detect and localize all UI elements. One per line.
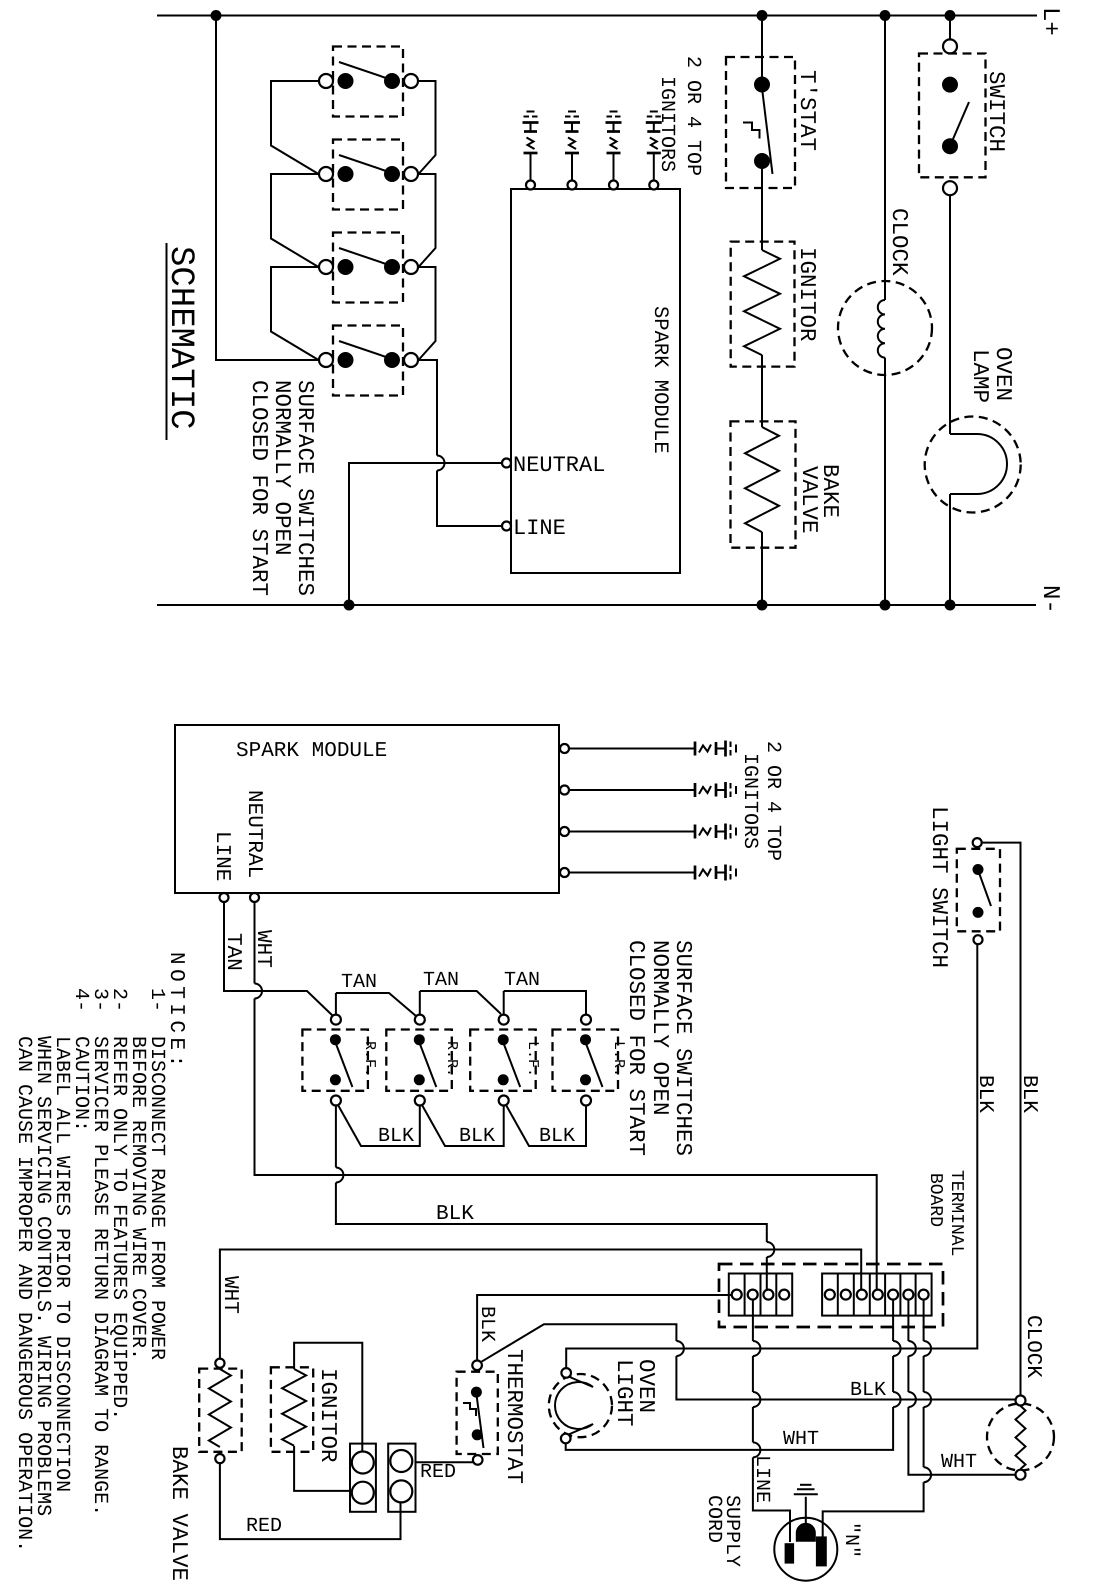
TAN bus linking surface switch tops xyxy=(336,993,416,1016)
junction: bake valve on N- xyxy=(757,600,768,611)
svg-text:2 OR 4 TOP: 2 OR 4 TOP xyxy=(761,741,784,861)
wire: thermostat BLK to terminal L1 xyxy=(477,1295,732,1361)
node N- rail xyxy=(157,604,1036,606)
svg-text:BLK: BLK xyxy=(475,1306,498,1342)
svg-text:TAN: TAN xyxy=(341,971,377,994)
light switch (oven light) xyxy=(926,806,1000,968)
wire: right bus link S1-S2 (top) xyxy=(419,81,436,174)
svg-text:BLK: BLK xyxy=(850,1379,886,1402)
svg-text:IGNITOR: IGNITOR xyxy=(794,247,820,342)
junction: switch tap on L+ xyxy=(945,10,956,21)
terminal board dashed outline xyxy=(719,1264,943,1327)
svg-text:BLK: BLK xyxy=(459,1125,495,1148)
oven lamp (top) xyxy=(925,347,1021,513)
label 2 OR 4 TOP IGNITORS (top) xyxy=(655,56,704,176)
svg-text:LINE: LINE xyxy=(750,1455,773,1503)
junction: clock tap on L+ xyxy=(880,10,891,21)
svg-text:N-: N- xyxy=(1036,585,1063,614)
wire ignitor to bake valve xyxy=(761,355,763,427)
svg-text:LIGHT SWITCH: LIGHT SWITCH xyxy=(926,806,952,968)
connector block 2 xyxy=(388,1444,415,1512)
svg-text:LIGHT: LIGHT xyxy=(611,1359,637,1427)
junction: oven lamp on N- xyxy=(945,600,956,611)
surface switch S1 (top schematic) xyxy=(319,47,418,117)
wire: right bus link S2-S3 (top) xyxy=(419,174,436,267)
svg-text:LINE: LINE xyxy=(513,516,566,541)
labels surface switches (top) xyxy=(246,380,318,596)
surface switch S3 (top schematic) xyxy=(319,233,418,303)
svg-text:SWITCH: SWITCH xyxy=(983,71,1009,152)
wire RED: thermostat to connector xyxy=(416,1461,474,1463)
connector block 1 xyxy=(350,1444,376,1512)
svg-text:L.F.: L.F. xyxy=(524,1041,541,1077)
wire: terminal R5 to oven light WHT (hops 2 lines) xyxy=(892,1300,894,1341)
svg-text:BLK: BLK xyxy=(436,1203,474,1226)
svg-text:IGNITORS: IGNITORS xyxy=(655,76,678,172)
oven lamp switch (top) xyxy=(919,16,1009,196)
svg-text:SCHEMATIC: SCHEMATIC xyxy=(161,246,199,430)
ignitor spark gap 3 (top schematic) xyxy=(606,112,622,190)
wire: right bus link S3-S4 (top) xyxy=(419,267,436,360)
svg-text:NEUTRAL: NEUTRAL xyxy=(513,453,605,478)
svg-text:VALVE: VALVE xyxy=(796,466,822,534)
wire hop over NEUTRAL line xyxy=(437,456,445,471)
svg-text:R.R.: R.R. xyxy=(443,1041,460,1077)
label 2 OR 4 TOP IGNITORS (wiring) xyxy=(738,741,784,861)
wire: oven light top to light switch bottom xyxy=(566,944,977,1368)
wire switch to oven lamp xyxy=(949,195,951,434)
svg-text:CLOSED FOR START: CLOSED FOR START xyxy=(623,940,649,1156)
junction: T'STAT tap on L+ xyxy=(757,10,768,21)
wire: L+ feed to surface switches xyxy=(216,16,319,361)
svg-text:BLK: BLK xyxy=(1017,1075,1040,1113)
wire oven lamp to N- xyxy=(949,494,951,605)
surface switch R.F. (wiring diagram) xyxy=(302,1015,378,1106)
ignitor spark gap 1 (top schematic) xyxy=(523,112,539,190)
ignitor spark gap 2 (top schematic) xyxy=(564,112,580,190)
surface switch R.R. (wiring diagram) xyxy=(386,1015,460,1106)
svg-text:SPARK MODULE: SPARK MODULE xyxy=(236,740,387,763)
wire BLK bus: switch R.F. to terminal L3 (hops WHT and WHT2) xyxy=(335,1106,337,1168)
junction: clock on N- xyxy=(880,600,891,611)
wire WHT: spark module NEUTRAL down to terminal R4 (hops TAN) xyxy=(254,902,256,984)
svg-text:WHT: WHT xyxy=(941,1451,977,1474)
svg-text:WHT: WHT xyxy=(251,930,274,968)
wire WHT2: bake valve to terminal R3 xyxy=(220,1250,861,1359)
labels surface switches (wiring) xyxy=(623,940,696,1156)
surface switch L.R. (wiring diagram) xyxy=(553,1015,628,1106)
svg-text:RED: RED xyxy=(420,1461,456,1484)
wire: terminal R6 to clock bottom xyxy=(907,1300,909,1341)
svg-text:L+: L+ xyxy=(1036,7,1063,36)
surface switch S4 (top schematic) xyxy=(319,326,418,396)
wire BLK: thermostat top to clock top (hops oven light wire) xyxy=(482,1324,677,1361)
wire N: terminal R7 to supply cord neutral (hops 3 lines) xyxy=(923,1300,925,1341)
svg-text:TAN: TAN xyxy=(423,969,459,992)
svg-text:LAMP: LAMP xyxy=(967,349,993,403)
wire: ignitor top to connector xyxy=(294,1343,362,1452)
svg-text:TERMINAL: TERMINAL xyxy=(946,1170,966,1256)
pin LINE (top spark module) xyxy=(502,522,511,531)
terminal block left group xyxy=(729,1274,792,1316)
clock motor coil (top) xyxy=(838,16,932,606)
svg-text:IGNITOR: IGNITOR xyxy=(315,1368,341,1463)
svg-text:LINE: LINE xyxy=(210,831,233,881)
ignitor spark gap 2 (wiring diagram) xyxy=(560,782,736,798)
svg-text:"N": "N" xyxy=(839,1522,862,1558)
pin LINE (bottom spark module) xyxy=(220,893,229,902)
svg-text:R.F.: R.F. xyxy=(361,1041,378,1077)
junction: surface switches tap on L+ xyxy=(211,10,222,21)
bake valve (wiring diagram) xyxy=(166,1359,242,1581)
wire bake valve to N- xyxy=(761,532,763,605)
wire: left bus link S3-S4 (top) xyxy=(271,267,319,360)
oven ignitor (wiring diagram) xyxy=(271,1367,341,1462)
pin NEUTRAL (top spark module) xyxy=(502,459,511,468)
svg-text:CLOSED FOR START: CLOSED FOR START xyxy=(246,380,272,596)
wire BLK: light switch top down to clock top xyxy=(982,843,1021,1396)
svg-text:IGNITORS: IGNITORS xyxy=(738,753,761,849)
wire TAN: spark module LINE to surface switch bus xyxy=(224,902,333,1016)
notice text block xyxy=(12,952,187,1552)
wire: ignitor bottom to connector xyxy=(294,1446,351,1491)
svg-text:TAN: TAN xyxy=(221,933,244,971)
svg-text:BLK: BLK xyxy=(539,1125,575,1148)
oven light bulb xyxy=(549,1359,659,1443)
surface switch L.F. (wiring diagram) xyxy=(470,1015,541,1106)
svg-text:SPARK MODULE: SPARK MODULE xyxy=(648,306,671,454)
svg-text:NORMALLY OPEN: NORMALLY OPEN xyxy=(647,940,673,1116)
surface switch S2 (top schematic) xyxy=(319,140,418,210)
clock motor (wiring diagram) xyxy=(987,1315,1054,1480)
svg-text:BLK: BLK xyxy=(973,1075,996,1113)
ignitor spark gap 4 (top schematic) xyxy=(646,112,662,190)
ignitor spark gap 3 (wiring diagram) xyxy=(560,824,736,840)
wire RED: bake valve to connector 2 xyxy=(220,1463,401,1539)
bake valve coil (top) xyxy=(731,421,844,547)
svg-text:BOARD: BOARD xyxy=(925,1173,945,1227)
svg-text:CAN CAUSE IMPROPER AND DANGERO: CAN CAUSE IMPROPER AND DANGEROUS OPERATI… xyxy=(12,1036,35,1552)
BLK links between surface switch bottoms xyxy=(338,1105,420,1146)
svg-text:T'STAT: T'STAT xyxy=(794,70,820,151)
wire: NEUTRAL line to N- rail xyxy=(349,463,502,605)
wire: S4 output to spark module LINE (with hop) xyxy=(419,360,438,456)
wire: left bus link S1-S2 (top) xyxy=(271,81,319,174)
pin NEUTRAL (bottom spark module) xyxy=(250,893,259,902)
svg-text:NEUTRAL: NEUTRAL xyxy=(242,790,265,878)
svg-text:CORD: CORD xyxy=(702,1495,725,1543)
oven thermostat xyxy=(457,1349,527,1484)
title SCHEMATIC xyxy=(161,243,199,440)
svg-text:2 OR 4 TOP: 2 OR 4 TOP xyxy=(681,56,704,176)
spark module box (wiring diagram) xyxy=(175,725,559,893)
ignitor spark gap 4 (wiring diagram) xyxy=(560,865,736,881)
junction: spark module neutral on N- xyxy=(344,600,355,611)
supply cord plug xyxy=(702,1485,862,1581)
svg-text:WHT: WHT xyxy=(783,1428,819,1451)
svg-text:THERMOSTAT: THERMOSTAT xyxy=(501,1349,527,1484)
svg-text:BAKE VALVE: BAKE VALVE xyxy=(166,1446,192,1581)
wire tstat to ignitor xyxy=(761,169,763,250)
oven ignitor resistor (top) xyxy=(731,242,820,367)
T'STAT thermostat switch (top) xyxy=(726,16,820,189)
svg-text:CLOCK: CLOCK xyxy=(1021,1315,1044,1378)
svg-text:RED: RED xyxy=(246,1515,282,1538)
svg-text:BLK: BLK xyxy=(378,1125,414,1148)
ignitor spark gap 1 (wiring diagram) xyxy=(560,741,736,757)
wire: left bus link S2-S3 (top) xyxy=(271,174,319,267)
spark module box (top schematic) xyxy=(511,189,680,573)
node L+ rail xyxy=(157,15,1037,17)
svg-text:WHT: WHT xyxy=(218,1276,241,1314)
terminal block right group xyxy=(822,1274,932,1316)
wire LINE: terminal L2 down to supply cord (hops 3 lines) xyxy=(752,1300,754,1341)
svg-text:TAN: TAN xyxy=(504,969,540,992)
svg-text:CLOCK: CLOCK xyxy=(886,208,912,276)
